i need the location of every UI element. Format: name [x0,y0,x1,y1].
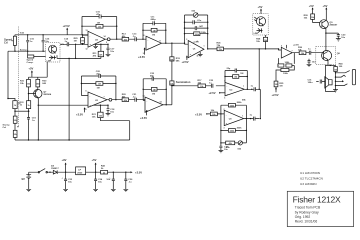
svg-text:7: 7 [292,51,293,53]
node emitter wire [38,105,39,106]
power +5V vactrol2 [258,5,263,14]
svg-text:11: 11 [197,55,199,57]
wire [29,62,48,77]
node [38,139,39,140]
svg-text:LDR: LDR [254,33,259,35]
svg-text:+2.5V: +2.5V [208,91,215,95]
capacitor C13 [132,33,146,41]
node [143,89,144,90]
wire fb verticals [143,23,166,43]
power +5V arrow [28,67,33,78]
ground battery [26,189,31,191]
svg-text:5: 5 [86,109,87,111]
svg-text:7: 7 [104,96,105,98]
node [165,30,166,31]
node input [184,43,185,44]
resistor R38 [304,14,320,23]
svg-text:1M: 1M [240,73,243,75]
resistor R33 [20,101,31,112]
op-amp U2a [88,31,105,47]
svg-text:Orig. 1992: Orig. 1992 [295,215,311,219]
resistor R12 [82,23,117,29]
svg-text:.47u: .47u [96,13,101,16]
resistor R34 input [195,110,224,117]
node [95,172,96,173]
svg-text:Cal: Cal [3,127,7,129]
resistor R20 [116,94,135,102]
power +2.5V [76,107,86,116]
wire plus-net row2 [93,104,108,106]
node [81,26,82,27]
resistor R23 [143,79,166,105]
resistor R21 [92,105,103,121]
capacitor C24 [185,25,208,30]
op-amp U3b [224,110,243,125]
capacitor bypass C37 [307,59,317,67]
wire base down [28,94,30,101]
svg-text:1M: 1M [275,84,278,86]
capacitor C36 [123,172,133,192]
svg-text:100k: 100k [283,73,289,75]
node [207,33,208,34]
resistor R40 [334,62,344,89]
switch S1 [38,169,47,173]
node F [42,51,43,52]
svg-text:1: 1 [204,46,205,48]
svg-text:100: 100 [334,69,337,71]
node H [82,44,83,45]
svg-text:+2.5V: +2.5V [140,116,147,120]
battery BT1 9V [22,172,32,189]
resistor fb cluster R-c [276,66,294,76]
svg-text:10u: 10u [312,61,316,63]
capacitor C32 [308,49,316,55]
svg-text:U2 TLC27M4CN: U2 TLC27M4CN [300,176,323,180]
wire fb verticals [185,15,208,49]
svg-text:9V: 9V [22,177,25,181]
svg-text:.01u: .01u [197,20,202,22]
resistor R25 [74,35,85,45]
resistor R36 [292,47,309,55]
capacitor C27 [219,143,229,153]
ROW1 [57,12,191,141]
node [171,43,172,44]
svg-text:22p: 22p [227,68,231,70]
svg-text:2950: 2950 [77,172,83,174]
node j4 [335,85,336,86]
capacitor C11 [143,16,166,25]
node B [42,34,43,35]
pin 7 [109,98,112,101]
svg-text:+5V: +5V [258,5,263,9]
svg-text:5: 5 [281,46,282,48]
svg-text:10n: 10n [110,111,114,113]
wire sweep return [57,44,101,140]
resistor R35 [274,72,284,93]
capacitor C34 [93,172,103,192]
node [166,89,167,90]
node j2 [335,76,336,77]
node [224,76,225,77]
svg-text:1M: 1M [279,85,282,87]
FILTER-OA3 [182,11,279,65]
capacitor C28 [251,86,256,92]
potentiometer VR2 sweep cal [3,111,19,140]
diode D4 [51,164,59,174]
svg-text:200k: 200k [237,127,243,129]
node [246,130,247,131]
capacitor C33 [62,172,73,192]
power +9V arrow [62,158,67,172]
node out1 [116,39,117,40]
node [28,139,29,140]
node [116,26,117,27]
node [28,111,29,112]
INPUT-SECTION [4,24,88,127]
svg-text:10u: 10u [106,179,110,181]
node [278,48,279,49]
node [49,172,50,173]
capacitor C22 [143,73,166,81]
node [184,22,185,23]
svg-text:2: 2 [224,109,225,111]
svg-text:+5V: +5V [92,158,97,162]
svg-text:2N3904: 2N3904 [43,93,51,96]
wire out row2 [163,104,172,106]
svg-text:1N5817: 1N5817 [51,168,59,170]
wire Vdd rail [15,34,88,36]
resistor R26 [217,42,224,50]
node [142,30,143,31]
resistor R37 fb top [221,99,247,118]
capacitor C17 [106,44,115,56]
node D [14,51,15,52]
jack J1 contacts [336,71,350,86]
svg-text:68p: 68p [150,75,154,77]
power +5V b [323,4,328,20]
node [265,48,266,49]
capacitor C29 [250,114,256,120]
node base [28,93,29,94]
svg-text:Sweep: Sweep [20,50,28,52]
node [220,113,221,114]
svg-text:1M: 1M [98,84,101,86]
node [100,44,101,45]
capacitor C21 [132,94,145,102]
wire to bus [100,120,129,122]
svg-text:13: 13 [86,30,88,32]
svg-text:1M: 1M [74,41,77,43]
wire out U3b [244,118,260,120]
node emitter V3 [330,65,331,66]
svg-text:100k: 100k [285,62,291,64]
resistor R24 [185,32,208,36]
svg-text:1M: 1M [152,35,155,37]
svg-text:200k: 200k [237,102,243,104]
svg-text:Comp.: Comp. [27,62,34,64]
node [75,58,76,59]
svg-text:2: 2 [186,59,187,61]
node [220,130,221,131]
svg-text:680p: 680p [151,19,157,21]
op-amp U2e [225,82,244,96]
resistor R19 [81,76,116,100]
node [68,139,69,140]
capacitor C16 [26,35,34,51]
svg-text:Summation: Summation [176,80,191,84]
capacitor C14 [60,38,88,47]
resistor R15 [170,57,181,63]
node [184,33,185,34]
power +2.5V bottom [182,55,189,64]
svg-text:9: 9 [143,53,144,55]
node [246,118,247,119]
node [247,89,248,90]
svg-text:10u: 10u [98,182,102,184]
wire bottom bus [15,121,130,140]
node [125,172,126,173]
wire lower join [15,110,30,112]
svg-text:.47u: .47u [96,73,101,76]
resistor R11 [93,44,104,58]
node [220,142,221,143]
op-amp U2d [145,97,163,112]
resistor R13 [117,33,135,41]
svg-text:+5V: +5V [309,4,314,8]
svg-text:4: 4 [197,40,198,43]
speaker SP1 [325,77,332,88]
resistor R41 bottom row [221,141,247,149]
POWER [22,158,143,192]
node j1 [335,72,336,73]
wire plus-net [94,43,108,45]
svg-text:2N5087: 2N5087 [330,25,338,27]
node [247,76,248,77]
node [68,58,69,59]
wire sweep [8,50,46,52]
svg-text:1M: 1M [81,41,84,43]
op-amp U2b [146,36,162,50]
gang dashed link [18,27,20,127]
wire emitter to opamp [38,105,88,140]
svg-text:+2.5V: +2.5V [63,24,70,28]
ground [198,52,203,57]
transistor Q7 [29,89,52,105]
capacitor C30 [336,33,346,41]
node G [7,98,8,99]
wire [326,65,336,92]
IC list [300,171,323,186]
resistor fb cluster R-a [278,64,284,67]
svg-text:1M: 1M [152,94,155,96]
svg-text:U3 LM392N: U3 LM392N [300,182,317,186]
node [107,105,108,106]
capacitor C25 [209,80,214,88]
value labels inside boxes [14,17,338,174]
svg-text:100u: 100u [308,82,314,84]
svg-text:10u: 10u [224,149,228,151]
node [259,89,260,90]
node [81,83,82,84]
power +2.5V out arrow [130,171,142,175]
node sum [171,85,172,86]
wire out U2e [244,89,260,118]
svg-text:Traced from PCB: Traced from PCB [295,206,321,210]
svg-text:Fisher 1212X: Fisher 1212X [293,195,341,205]
node j3 [335,81,336,82]
svg-text:by Rodney Gray: by Rodney Gray [295,210,319,214]
transistor Q9 [320,20,338,33]
svg-text:Revd. 10/31/06: Revd. 10/31/06 [295,220,318,224]
node [107,44,108,45]
svg-text:+2.5V: +2.5V [76,112,83,116]
node [207,27,208,28]
resistor R31 [20,77,30,93]
capacitor C18 [106,105,115,116]
resistor R30 [36,77,47,89]
node [250,118,251,119]
svg-text:+5V: +5V [28,67,33,71]
svg-text:Ctl: Ctl [4,40,8,44]
capacitor C10 [82,12,117,19]
optocoupler V1 vactrol [46,43,65,63]
svg-text:5: 5 [224,98,225,100]
svg-text:+9V: +9V [62,158,67,162]
svg-text:100k: 100k [201,32,207,34]
node emitter Q9 [325,32,326,33]
wire opamp1 output [105,38,122,40]
power +5V arrow [92,158,97,172]
resistor R17 [198,80,206,88]
svg-text:12: 12 [143,96,145,98]
svg-text:12: 12 [86,49,88,51]
node [260,118,261,119]
node C14 tap [75,44,76,45]
RIGHT [253,4,356,97]
svg-text:+2.5V: +2.5V [138,55,145,59]
node [14,111,15,112]
resistor R42 [101,164,108,174]
svg-text:8: 8 [160,40,161,42]
pin 1 [107,38,110,41]
resistor R16 summation [170,80,191,85]
node [259,48,260,49]
svg-text:+2.5V: +2.5V [195,113,202,117]
wire feedback verticals [82,17,117,40]
svg-text:5: 5 [106,42,107,44]
MIDDLE [172,48,261,153]
node [115,83,116,84]
svg-text:1M: 1M [97,88,100,90]
svg-text:+5V: +5V [323,4,328,8]
svg-text:3: 3 [186,39,187,41]
op-amp U3c [279,45,300,59]
jack J1 body [352,69,355,84]
svg-text:3: 3 [224,127,225,129]
node [166,104,167,105]
svg-text:Vdd: Vdd [20,33,25,35]
svg-text:14: 14 [104,35,106,38]
power +2.5V left arrow [208,91,225,95]
pin number labels [86,30,293,130]
svg-text:+2.5V: +2.5V [272,93,279,97]
node [251,89,252,90]
optocoupler V2 [253,14,268,35]
svg-text:10: 10 [143,35,145,37]
node [115,99,116,100]
resistor R28 [256,35,267,49]
capacitor C19 [27,111,36,140]
svg-text:+2.5V: +2.5V [182,60,189,64]
resistor R14 [143,28,166,36]
svg-text:240: 240 [36,83,39,86]
power +2.5V [140,110,148,120]
node [165,43,166,44]
capacitor C35 [106,172,115,192]
svg-text:10u: 10u [68,182,72,184]
resistor R39 fb bottom [221,114,247,143]
svg-text:7: 7 [243,86,244,88]
svg-text:1M: 1M [153,89,156,91]
regulator U4 LP2950 [76,167,86,175]
node [207,22,208,23]
wire left bus [7,51,9,98]
node [65,172,66,173]
svg-text:6: 6 [86,91,87,93]
power +2.5V arrow [63,24,70,35]
resistor R34b [8,99,21,112]
ground [93,44,98,48]
capacitor C15 [42,35,50,51]
optocoupler V3 [316,47,341,65]
wire long out [208,48,279,50]
svg-text:1M: 1M [234,77,237,79]
resistor R29 speed compensation [27,51,46,64]
svg-text:10u: 10u [341,37,345,39]
svg-text:10n: 10n [110,51,114,53]
trimmer VR3 [185,11,208,18]
node [100,105,101,106]
TITLE [287,171,353,227]
svg-text:1M: 1M [97,23,100,25]
svg-text:1M: 1M [153,30,156,32]
node [113,172,114,173]
svg-text:6: 6 [224,81,225,83]
wire vertical V1 [258,49,260,89]
wire out2 [162,42,185,44]
ROW2 [76,71,172,121]
svg-text:14: 14 [160,101,162,104]
title box [287,191,353,226]
power +5V a [309,4,314,14]
node E [27,51,28,52]
node A [27,34,28,35]
power +2.5V [272,87,279,97]
power +2.5V arrow [138,47,146,59]
svg-text:U1 LM13700N: U1 LM13700N [300,171,320,175]
wire main rail [29,171,131,173]
capacitor C20 [81,71,116,78]
capacitor C23 [185,20,208,24]
node [142,39,143,40]
node [184,27,185,28]
wire summing vertical [171,43,173,105]
node C [82,34,83,35]
node out3 [207,48,208,49]
svg-text:+2.5V: +2.5V [135,171,142,175]
ground jack sleeve [333,90,338,92]
capacitor C31 [308,80,325,85]
